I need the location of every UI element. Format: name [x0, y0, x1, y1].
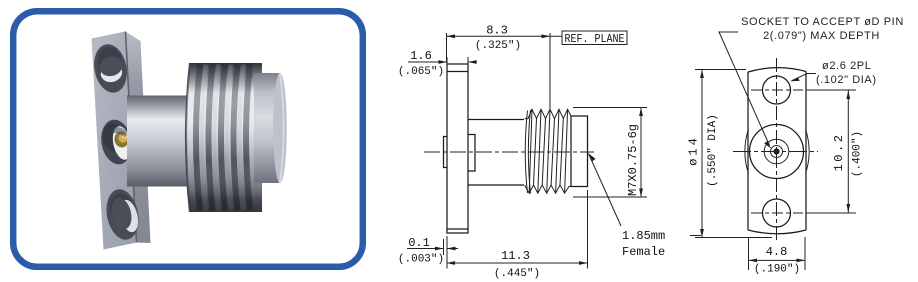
flange outline right edge — [805, 72, 807, 231]
end cap face rim — [280, 73, 284, 183]
flange plate front face — [92, 32, 137, 250]
photo frame blue rounded border — [13, 11, 363, 267]
socket inner circle — [771, 146, 783, 158]
11.3 right extension line — [587, 190, 589, 269]
10.2 dimension line — [847, 91, 849, 213]
8.3 dimension line — [447, 35, 563, 37]
top hole bright crescent — [99, 61, 125, 84]
0.1 dimension — [444, 236, 448, 269]
M7 dimension line — [640, 108, 642, 198]
flange outline left edge — [747, 72, 749, 230]
front face boss step — [468, 135, 475, 172]
bottom hole crescent cover — [108, 196, 134, 232]
coupling nut body — [186, 63, 262, 212]
thread ridge 1 — [202, 65, 206, 211]
thread ridge 3 — [227, 65, 231, 211]
barrel bottom line — [468, 184, 524, 186]
top hole crescent cover — [97, 54, 124, 79]
top mounting hole — [763, 76, 791, 104]
flange top chamfer line — [447, 71, 468, 73]
svg-text:(.550″ DIA): (.550″ DIA) — [707, 114, 719, 187]
end cap face — [273, 73, 287, 183]
bottom mounting hole — [763, 199, 791, 227]
interface end section — [571, 116, 588, 187]
vertical centerline — [776, 58, 778, 243]
nut shading overlay — [186, 63, 262, 212]
svg-text:REF. PLANE: REF. PLANE — [565, 32, 625, 46]
svg-text:1.85mm: 1.85mm — [622, 229, 665, 243]
socket outer circle — [750, 125, 804, 179]
thread top crest zigzag — [525, 109, 571, 118]
front view drawing — [687, 16, 904, 276]
svg-text:2(.079") MAX DEPTH: 2(.079") MAX DEPTH — [763, 30, 880, 42]
svg-text:(.003″): (.003″) — [398, 254, 444, 266]
socket center dot — [773, 148, 779, 154]
gold contact shadow — [113, 130, 130, 149]
top hole dark core — [95, 45, 124, 79]
svg-text:(.065″): (.065″) — [398, 66, 444, 78]
thread groove 3 — [221, 65, 225, 211]
bottom hole crosshair — [751, 212, 803, 214]
flange top edge curve — [748, 68, 806, 72]
bottom hole bright crescent — [117, 198, 141, 234]
svg-text:1.6: 1.6 — [410, 49, 432, 63]
svg-text:8.3: 8.3 — [486, 24, 508, 38]
thread groove 1 — [196, 65, 200, 211]
svg-text:SOCKET TO ACCEPT øD PIN: SOCKET TO ACCEPT øD PIN — [741, 16, 904, 28]
neck cylinder — [127, 96, 189, 187]
recess top shadow — [112, 127, 127, 138]
svg-text:M7X0.75-6g: M7X0.75-6g — [626, 124, 640, 196]
thread start chamfer arcs — [525, 111, 527, 194]
1.85mm female leader — [589, 154, 622, 227]
nut left edge dark arc — [186, 63, 190, 212]
bottom hole dark core — [108, 192, 136, 224]
body silhouette bulge arc left — [745, 129, 749, 174]
thread flank lines — [529, 109, 567, 193]
dia14 dimension line — [701, 70, 703, 238]
4.8 extension lines — [749, 237, 806, 270]
body silhouette bulge arc right — [806, 129, 810, 174]
svg-text:(.400″): (.400″) — [852, 131, 864, 177]
center recess — [98, 117, 135, 167]
barrel top line — [468, 119, 524, 121]
M7 thread dimension extension lines — [573, 108, 647, 198]
thread groove 2 — [209, 65, 213, 211]
svg-text:4.8: 4.8 — [766, 245, 788, 259]
svg-text:(.102" DIA): (.102" DIA) — [816, 74, 877, 86]
flange plate side face — [126, 32, 151, 244]
dia14 extension lines — [695, 70, 772, 238]
center recess dark core — [101, 121, 126, 152]
flange plate top face — [92, 32, 141, 49]
thread ridge 2 — [214, 65, 218, 211]
rear protrusion 0.1 step — [444, 137, 448, 168]
bottom hole dark — [102, 187, 142, 243]
REF. PLANE box — [562, 31, 627, 45]
svg-text:(.190″): (.190″) — [754, 264, 800, 276]
stray dash mark — [690, 235, 701, 237]
8.3 left extension line — [446, 33, 448, 63]
svg-text:ø14: ø14 — [687, 135, 701, 166]
svg-text:ø2.6 2PL: ø2.6 2PL — [822, 60, 871, 72]
gold contact pin — [118, 133, 127, 142]
horizontal centerline socket — [733, 151, 818, 153]
svg-text:11.3: 11.3 — [501, 249, 530, 263]
11.3 dimension line — [447, 262, 588, 264]
flange bottom chamfer line — [447, 228, 468, 230]
plate crease edge — [126, 32, 137, 243]
thread groove 4 — [234, 65, 238, 211]
ref plane extension line — [549, 33, 551, 109]
svg-text:(.325″): (.325″) — [475, 40, 521, 52]
hole note leader — [792, 74, 817, 81]
socket middle circle — [764, 139, 789, 164]
top hole crosshair — [751, 89, 803, 91]
flange bottom edge curve — [748, 230, 806, 234]
flange body rectangle — [447, 64, 468, 233]
4.8 dimension line — [749, 259, 806, 261]
socket white insulator — [110, 125, 134, 162]
top hole dark — [90, 41, 131, 95]
svg-text:(.445″): (.445″) — [494, 268, 540, 280]
10.2 extension lines — [806, 90, 856, 213]
thread groove 5 — [246, 65, 250, 211]
thread bottom crest zigzag — [525, 185, 571, 193]
svg-text:Female: Female — [622, 245, 665, 259]
side view drawing — [398, 24, 701, 281]
centerline — [424, 151, 594, 153]
socket note leader — [719, 32, 770, 146]
thread ridge 4 — [239, 65, 243, 211]
end cap — [254, 73, 280, 183]
svg-text:10.2: 10.2 — [832, 133, 846, 172]
1.6 dimension — [447, 57, 468, 64]
svg-text:0.1: 0.1 — [408, 236, 430, 250]
